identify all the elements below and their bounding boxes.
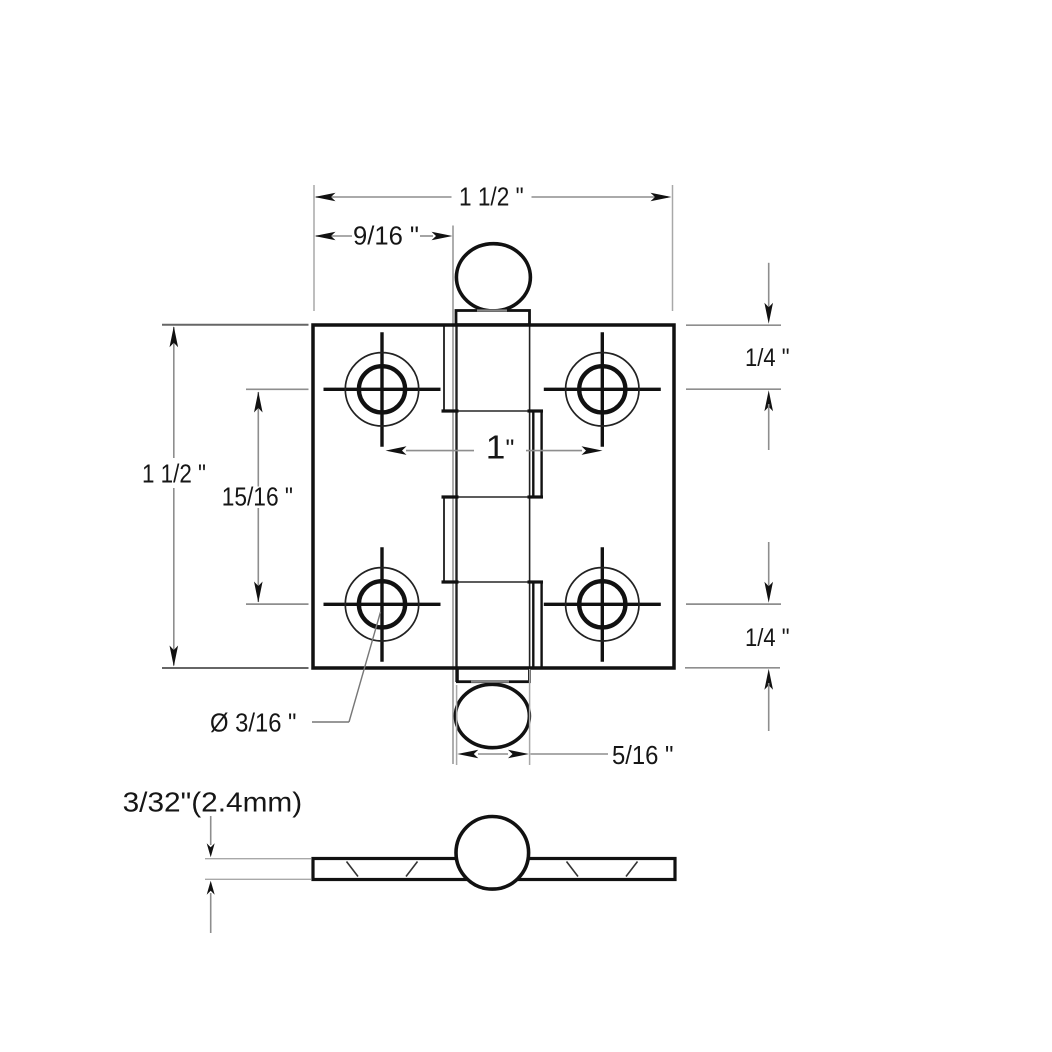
svg-text:1 1/2 ": 1 1/2 " — [459, 182, 524, 212]
dimension 9/16" (top, to barrel) — [315, 221, 453, 251]
svg-text:1/4 ": 1/4 " — [745, 344, 790, 372]
edge view countersink mark left-a — [347, 862, 359, 877]
dimension 3/32"(2.4mm) leaf thickness — [123, 787, 311, 934]
dimension 1" hole spacing (center) — [386, 429, 603, 466]
svg-text:9/16 ": 9/16 " — [353, 221, 419, 251]
screw hole top-left (crosshair + countersink) — [324, 332, 441, 447]
edge view countersink mark right-a — [567, 862, 579, 877]
knuckle step left y411 — [442, 409, 459, 412]
knuckle step right y411 — [528, 409, 544, 412]
dimension 5/16" barrel width (bottom) — [457, 669, 674, 770]
dimension 1 1/2" overall width (top) — [314, 182, 673, 312]
svg-text:1 1/2 ": 1 1/2 " — [142, 459, 206, 489]
svg-text:": " — [506, 435, 515, 463]
dimension 15/16" hole spacing (left) — [222, 389, 309, 604]
knuckle joint line upper — [458, 410, 528, 412]
knuckle joint line middle — [458, 496, 528, 498]
knuckle step left y497 — [442, 495, 459, 498]
svg-text:3/32"(2.4mm): 3/32"(2.4mm) — [123, 787, 303, 818]
edge view countersink mark left-b — [406, 862, 418, 877]
hinge leaf gap extension line — [452, 226, 454, 765]
bottom cap hidden edge — [471, 681, 509, 683]
edge view barrel circle — [456, 817, 529, 890]
barrel left edge — [455, 310, 457, 682]
svg-text:1: 1 — [486, 429, 506, 466]
knuckle joint line lower — [458, 581, 528, 583]
screw hole bottom-left (crosshair + countersink) — [324, 547, 441, 662]
top cap hidden edge — [477, 309, 507, 311]
hinge plate outline — [313, 325, 674, 668]
knuckle step right y582 — [528, 580, 544, 583]
top barrel cap — [456, 311, 530, 325]
svg-text:5/16 ": 5/16 " — [612, 740, 674, 770]
label Ø 3/16" hole diameter with leader — [210, 612, 381, 738]
top ball finial — [456, 244, 530, 311]
knuckle step right y497 — [528, 495, 544, 498]
bottom ball finial — [455, 684, 529, 747]
bottom barrel cap — [457, 668, 529, 682]
dimension 1/4" top edge to hole (right upper) — [686, 263, 790, 450]
edge view hinge leaf bar — [313, 859, 675, 880]
dimension 1 1/2" overall height (left) — [142, 325, 309, 668]
edge view countersink mark right-b — [626, 862, 638, 877]
knuckle step left y582 — [442, 580, 459, 583]
svg-text:15/16 ": 15/16 " — [222, 482, 293, 512]
svg-text:1/4 ": 1/4 " — [745, 624, 790, 652]
bottom-right knuckle tab — [533, 582, 541, 668]
top-left knuckle edge — [443, 325, 445, 411]
screw hole top-right (crosshair + countersink) — [544, 332, 661, 447]
dimension 1/4" hole to bottom edge (right lower) — [685, 542, 790, 731]
screw hole bottom-right (crosshair + countersink) — [544, 547, 661, 662]
lower-left knuckle edge — [443, 497, 445, 582]
svg-text:Ø 3/16 ": Ø 3/16 " — [210, 708, 297, 738]
middle-right knuckle tab — [533, 411, 541, 497]
barrel right edge — [529, 310, 531, 682]
